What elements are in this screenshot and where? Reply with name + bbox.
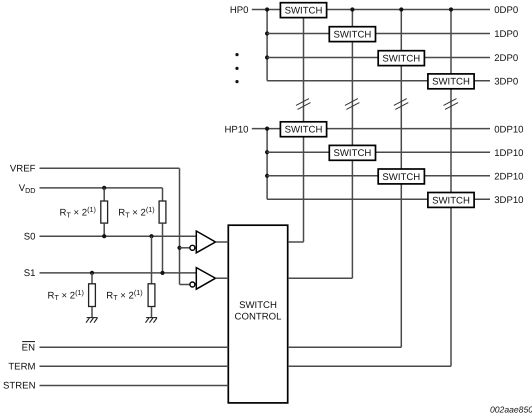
wire HP0 bus vertical (266, 10, 268, 81)
switch SW8 (HP10-3DP10) (428, 193, 474, 208)
wire HP10 row3 switch input (267, 175, 379, 177)
svg-text:SWITCH: SWITCH (285, 6, 323, 17)
node HP0 junction row1 (265, 7, 269, 11)
node junction 0DP0/C2 (399, 7, 403, 11)
wire 2DP10 output (424, 175, 490, 177)
svg-text:RT × 2(1): RT × 2(1) (60, 205, 96, 219)
break mark column 1 (296, 99, 311, 110)
switch SW3 (HP0-2DP0) (378, 51, 424, 66)
svg-text:1DP0: 1DP0 (494, 29, 518, 40)
wire control output 4 (288, 365, 451, 367)
EN overline (22, 341, 35, 343)
node VREF to comparator A1 (177, 246, 181, 250)
svg-text:RT × 2(1): RT × 2(1) (48, 288, 84, 302)
wire S1 (40, 272, 197, 274)
break mark column 4 (444, 99, 459, 110)
wire control line column 1 (net C0) (303, 14, 305, 242)
svg-text:RT × 2(1): RT × 2(1) (106, 288, 142, 302)
wire VREF horizontal (40, 167, 180, 169)
switch SW6 (HP10-1DP10) (329, 145, 375, 160)
wire HP10 row2 switch input (267, 151, 330, 153)
switch SW7 (HP10-2DP10) (378, 169, 424, 184)
wire row2 switch input (267, 33, 330, 35)
resistor R3 (RT x 2, S1 pull-down) (89, 273, 96, 318)
switch SW2 (HP0-1DP0) (329, 27, 375, 42)
svg-text:SWITCH: SWITCH (382, 172, 420, 183)
wire HP10 input (252, 128, 281, 130)
node S1/R3 junction (90, 271, 94, 275)
wire HP0 input (252, 9, 281, 11)
svg-text:0DP0: 0DP0 (494, 5, 518, 16)
node HP10 junction row2 (265, 150, 269, 154)
wire VREF to A2 bubble (180, 284, 191, 286)
wire control output 3 (288, 346, 401, 348)
node HP0 junction row2 (265, 31, 269, 35)
svg-text:VREF: VREF (10, 163, 36, 174)
svg-text:3DP10: 3DP10 (494, 195, 523, 206)
wire EN (40, 346, 229, 348)
svg-text:2DP0: 2DP0 (494, 53, 518, 64)
svg-text:S0: S0 (24, 231, 36, 242)
node ellipsis HP1..HP9 (235, 53, 238, 83)
svg-text:2DP10: 2DP10 (494, 172, 523, 183)
svg-text:STREN: STREN (3, 381, 36, 392)
svg-text:EN: EN (22, 342, 35, 353)
node HP10 junction row1 (265, 127, 269, 131)
wire row4 switch input (267, 80, 428, 82)
resistor R2 (RT x 2, VDD pull-up on S1) (159, 188, 166, 273)
break mark column 2 (345, 99, 360, 110)
switch SW5 (HP10-0DP10) (280, 122, 326, 137)
break mark column 3 (394, 99, 409, 110)
wire VDD horizontal (40, 187, 163, 189)
switch SW4 (HP0-3DP0) (428, 74, 474, 89)
node VDD to R1 (102, 186, 106, 190)
wire 2DP0 output (424, 57, 490, 59)
ground GND2 (146, 318, 158, 323)
svg-text:0DP10: 0DP10 (494, 124, 523, 135)
svg-text:RT × 2(1): RT × 2(1) (118, 205, 154, 219)
svg-text:CONTROL: CONTROL (235, 311, 283, 322)
wire control line column 2 (net C1) (351, 10, 353, 279)
resistor R4 (RT x 2, S0 pull-down) (148, 236, 155, 317)
svg-text:S1: S1 (24, 268, 36, 279)
wire 3DP0 output (473, 80, 490, 82)
resistor R1 (RT x 2, VDD pull-up on S0) (101, 188, 108, 236)
wire 1DP10 output (375, 151, 490, 153)
wire row3 switch input (267, 57, 379, 59)
svg-text:1DP10: 1DP10 (494, 148, 523, 159)
svg-text:VDD: VDD (19, 183, 36, 195)
node junction 0DP0/C1 (350, 7, 354, 11)
node junction 0DP0/C3 (449, 7, 453, 11)
wire TERM (40, 365, 229, 367)
wire 0DP10 output (326, 128, 490, 130)
node HP10 junction row3 (265, 174, 269, 178)
svg-text:HP0: HP0 (230, 5, 249, 16)
wire 0DP0 output (326, 9, 490, 11)
node HP0 junction row3 (265, 55, 269, 59)
wire control output 2 (288, 277, 352, 279)
svg-text:3DP0: 3DP0 (494, 76, 518, 87)
node S0/R4 junction (149, 234, 153, 238)
svg-text:SWITCH: SWITCH (239, 300, 277, 311)
switch control block U1 (228, 225, 287, 403)
wire S0 (40, 235, 197, 237)
wire STREN (40, 385, 229, 387)
wire VREF to A1 bubble (180, 247, 191, 249)
comparator A2 (S1) (190, 268, 228, 290)
wire control output 1 (288, 241, 304, 243)
svg-text:SWITCH: SWITCH (285, 125, 323, 136)
svg-text:HP10: HP10 (225, 124, 249, 135)
svg-text:SWITCH: SWITCH (333, 148, 371, 159)
svg-text:002aae850: 002aae850 (490, 405, 532, 415)
wire 1DP0 output (375, 33, 490, 35)
wire HP10 bus vertical (266, 129, 268, 200)
node S1/R2 junction (160, 271, 164, 275)
wire HP10 row4 switch input (267, 198, 428, 200)
svg-text:SWITCH: SWITCH (333, 30, 371, 41)
svg-text:TERM: TERM (8, 361, 35, 372)
svg-text:SWITCH: SWITCH (432, 195, 470, 206)
svg-text:SWITCH: SWITCH (382, 54, 420, 65)
node S0/R1 junction (102, 234, 106, 238)
wire control line column 3 (net C2) (400, 10, 402, 348)
wire control line column 4 (net C3) (450, 10, 452, 367)
ground GND1 (86, 318, 98, 323)
wire 3DP10 output (473, 198, 490, 200)
svg-text:SWITCH: SWITCH (432, 77, 470, 88)
switch SW1 (HP0-0DP0) (280, 3, 326, 18)
wire VREF vertical (179, 168, 181, 284)
comparator A1 (S0) (190, 231, 228, 253)
